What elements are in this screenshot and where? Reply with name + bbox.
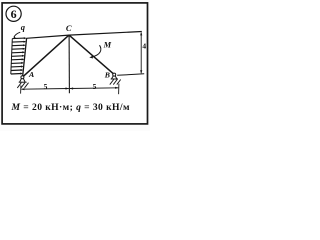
svg-text:A: A (28, 70, 34, 79)
load tails line (11, 39, 13, 74)
right dimension line (4) (140, 33, 142, 74)
svg-text:C: C (66, 23, 72, 33)
svg-text:q: q (21, 22, 26, 32)
B level reference line (117, 74, 144, 76)
pin support B (110, 73, 121, 85)
member C-B (69, 35, 114, 74)
top chord left: strip top to C (26, 35, 69, 38)
svg-text:M: M (103, 40, 112, 50)
vertical post from C (68, 35, 70, 93)
bottom dimension line left span (5) (21, 88, 68, 91)
extension line below B (118, 84, 120, 95)
left vertical member (loaded) (23, 38, 27, 76)
distributed load q arrows (11, 37, 27, 75)
q leader arrow (14, 32, 20, 37)
svg-text:M = 20 кН·м; q = 30 кН/м: M = 20 кН·м; q = 30 кН/м (11, 102, 130, 113)
border frame (2, 3, 147, 124)
extension line below A (20, 85, 22, 93)
svg-text:4: 4 (142, 42, 146, 51)
svg-text:6: 6 (11, 7, 17, 21)
problem number circle 6 (6, 6, 21, 21)
pin support A (17, 76, 28, 88)
moment M arc arrow (91, 45, 101, 57)
svg-text:B: B (104, 71, 110, 80)
top chord right: C to dim corner (69, 32, 142, 36)
member A-C (23, 35, 69, 76)
bottom dimension line right span (5) (70, 87, 119, 90)
svg-text:5: 5 (93, 82, 97, 91)
svg-text:5: 5 (44, 82, 48, 91)
